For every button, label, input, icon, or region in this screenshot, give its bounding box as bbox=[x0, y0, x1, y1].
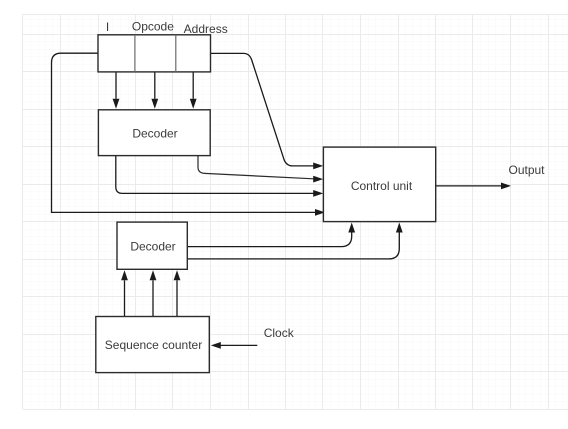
arrowhead W3 bbox=[313, 176, 323, 183]
svg-text:Decoder: Decoder bbox=[130, 240, 175, 254]
svg-text:Control unit: Control unit bbox=[351, 179, 413, 193]
svg-text:Clock: Clock bbox=[264, 326, 295, 340]
control unit box bbox=[323, 147, 435, 222]
decoder1 box bbox=[98, 110, 210, 156]
arrow seq counter to decoder2 #1 bbox=[124, 280, 126, 316]
svg-text:Output: Output bbox=[508, 163, 545, 177]
svg-text:Opcode: Opcode bbox=[132, 19, 174, 33]
arrow seq counter to decoder2 #3 bbox=[176, 280, 178, 316]
arrowhead W1 bbox=[315, 209, 325, 216]
arrow seq counter to decoder2 #2 bbox=[152, 280, 154, 316]
arrow register to decoder1 #2 bbox=[154, 72, 156, 99]
sequence counter box bbox=[96, 317, 210, 373]
wire W4: decoder1 left stub to control unit input 3 bbox=[116, 156, 314, 194]
arrowhead W2 bbox=[313, 163, 323, 170]
register divider 2 bbox=[175, 35, 177, 72]
arrowhead W6 bbox=[396, 223, 403, 233]
wire W2: register right to control unit input 1 bbox=[211, 53, 315, 165]
wire W3: decoder1 right stub to control unit input 2 bbox=[198, 156, 314, 179]
arrowhead W5 bbox=[348, 223, 355, 233]
arrowhead W4 bbox=[313, 190, 323, 197]
arrow register to decoder1 #3 bbox=[192, 72, 194, 99]
arrowhead W8 bbox=[501, 183, 511, 190]
wire W7: clock line into sequence counter bbox=[220, 344, 257, 346]
wire W1: register left loop to control unit input 4 bbox=[52, 53, 316, 212]
register box (I / Opcode / Address) bbox=[98, 35, 211, 72]
wire W6: decoder2 output 2 to control unit bottom input 2 bbox=[187, 232, 399, 259]
svg-text:Sequence counter: Sequence counter bbox=[105, 338, 202, 352]
register divider 1 bbox=[134, 35, 136, 72]
arrowhead W7 bbox=[211, 342, 221, 349]
svg-text:Address: Address bbox=[184, 22, 228, 36]
arrow register to decoder1 #1 bbox=[115, 72, 117, 99]
svg-text:Decoder: Decoder bbox=[132, 127, 177, 141]
svg-text:I: I bbox=[106, 20, 109, 34]
decoder2 box bbox=[117, 222, 187, 269]
wire W5: decoder2 output 1 to control unit bottom input 1 bbox=[187, 232, 351, 247]
wire W8: control unit output line bbox=[436, 185, 502, 187]
